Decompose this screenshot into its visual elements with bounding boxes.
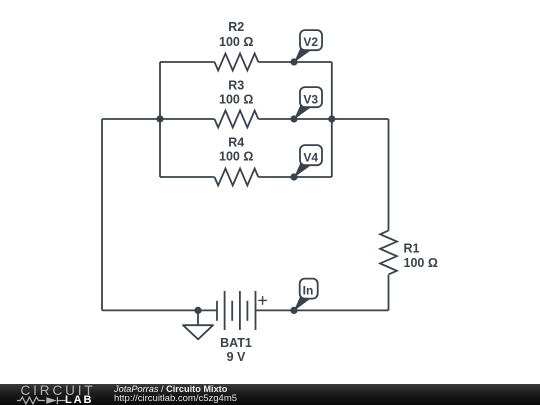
- junction node ground: [194, 307, 201, 314]
- svg-text:100 Ω: 100 Ω: [219, 92, 253, 106]
- resistor R2: [215, 54, 259, 71]
- wire right outer vertical top: [388, 119, 390, 231]
- svg-text:R1: R1: [404, 242, 420, 256]
- wire left parallel bus: [159, 62, 161, 177]
- wire right outer vertical bottom: [388, 275, 390, 311]
- wire R4 branch left: [160, 176, 215, 178]
- resistor R1: [380, 231, 397, 275]
- svg-text:R4: R4: [228, 136, 244, 150]
- wire R4 branch right: [258, 176, 331, 178]
- wire main branch middle-right segment: [258, 118, 331, 120]
- junction node left bus / main: [156, 115, 163, 122]
- svg-text:100 Ω: 100 Ω: [219, 150, 253, 164]
- probe In: [294, 279, 318, 311]
- svg-text:BAT1: BAT1: [220, 336, 252, 350]
- wire main branch left segment: [102, 118, 160, 120]
- wire main branch middle-left segment: [160, 118, 215, 120]
- ground: [183, 310, 213, 339]
- svg-text:V4: V4: [303, 150, 318, 164]
- junction node probe V4: [290, 173, 297, 180]
- probe V3: [294, 87, 322, 119]
- svg-text:R2: R2: [228, 20, 244, 34]
- junction node probe In: [290, 307, 297, 314]
- svg-text:9 V: 9 V: [227, 350, 246, 364]
- svg-text:R3: R3: [228, 78, 244, 92]
- wire left outer vertical: [101, 119, 103, 310]
- svg-text:V2: V2: [303, 35, 318, 49]
- junction node probe V2: [290, 58, 297, 65]
- wire right parallel bus: [331, 62, 333, 177]
- resistor R4: [215, 169, 259, 186]
- wire bottom right segment: [256, 309, 389, 311]
- wire main branch right segment: [332, 118, 389, 120]
- svg-text:V3: V3: [303, 92, 318, 106]
- junction node probe V3: [290, 115, 297, 122]
- svg-text:In: In: [303, 283, 314, 297]
- battery BAT1: [217, 291, 267, 330]
- junction node right bus / main: [328, 115, 335, 122]
- svg-text:100 Ω: 100 Ω: [219, 35, 253, 49]
- wire R2 branch right: [258, 61, 331, 63]
- wire bottom left segment: [102, 309, 217, 311]
- probe V2: [294, 30, 322, 62]
- resistor R3: [215, 111, 259, 128]
- wire R2 branch left: [160, 61, 215, 63]
- svg-text:100 Ω: 100 Ω: [404, 256, 438, 270]
- probe V4: [294, 145, 322, 177]
